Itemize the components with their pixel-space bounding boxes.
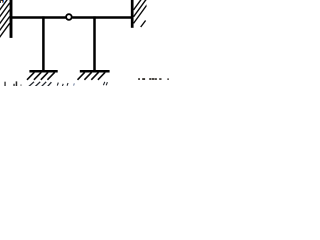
left wall support line [10,0,13,38]
ground symbol 2 hatching [78,72,106,80]
right wall short bottom hatch [141,21,146,28]
corner artifact glyph fragment top-left [0,0,4,3]
right wall support line [131,0,134,28]
pin joint node (open circle) [66,14,72,20]
caption text slash fragments below ground 1 [29,82,52,87]
horizontal member wire (left segment, wall to pin) [10,16,66,18]
right wall hatching [134,0,148,23]
small text fragment bottom-right [138,78,169,80]
caption text fragments bottom-left [4,81,21,86]
caption text fragments bottom-middle ticks [57,82,107,86]
horizontal member wire (right segment, pin to wall) [72,16,131,18]
ground symbol 1 bar [29,70,57,73]
ground symbol 1 hatching [27,72,55,80]
left wall hatching [0,0,10,38]
ground symbol 2 bar [80,70,110,73]
vertical member 1 wire [42,16,45,70]
vertical member 2 wire [93,16,96,70]
